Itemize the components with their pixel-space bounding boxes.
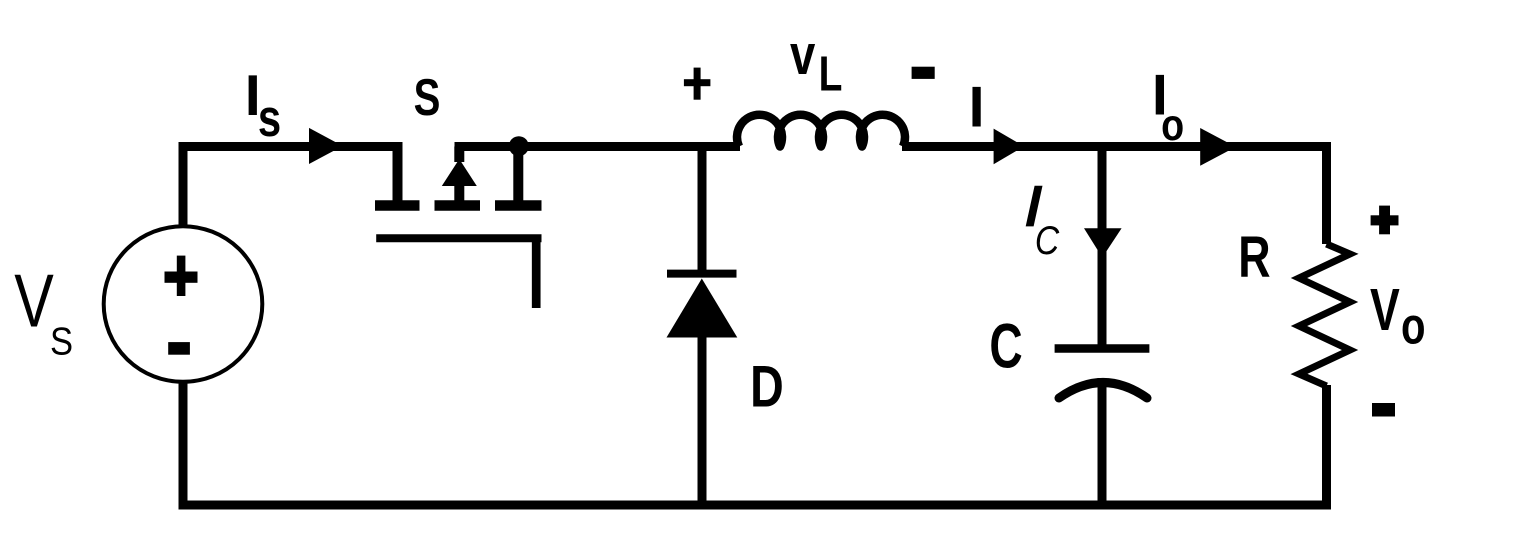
diode D triangle [667,279,738,338]
svg-text:C: C [989,312,1022,382]
transistor S (MOSFET switch) [375,142,542,308]
label Is [245,64,281,148]
mosfet body-diode triangle [442,159,477,186]
wire: source top lead, top-left wire, switch drain lead [183,147,398,227]
mosfet drain lead [393,142,403,201]
voltage source VS circle [104,226,263,382]
current arrow I [994,129,1024,165]
svg-text:V: V [14,258,54,342]
svg-text:C: C [1035,219,1060,263]
svg-text:o: o [1401,296,1426,354]
capacitor C top plate [1055,344,1150,353]
voltage source minus sign [168,342,190,355]
label vL [790,23,842,102]
svg-text:L: L [819,47,843,102]
svg-text:R: R [1238,225,1270,290]
svg-text:s: s [258,89,281,148]
plus label for Vo [1371,206,1399,235]
svg-text:S: S [414,68,441,126]
resistor R zigzag [1299,244,1350,386]
mosfet source lead [513,147,523,201]
inductor L coil [737,115,905,147]
mosfet body-diode stub [454,147,464,201]
current arrow Is [309,128,343,164]
label Io [1152,64,1184,150]
mosfet gate bar [376,234,541,242]
svg-text:o: o [1161,101,1184,150]
svg-text:V: V [1370,276,1400,343]
junction dot at switch source [509,136,529,156]
mosfet middle pad [435,200,481,211]
capacitor C curved bottom plate [1059,383,1147,399]
current arrow IC [1084,228,1122,257]
wire: capacitor bottom lead [1098,378,1107,505]
wire: top-right from inductor to load corner, load top lead [902,147,1327,245]
svg-text:I: I [969,75,985,139]
label VS [14,258,73,363]
voltage source plus sign [165,256,198,296]
minus label for Vo [1372,403,1395,417]
svg-text:v: v [790,23,816,87]
wire: top-middle from switch to inductor [455,142,741,151]
label IC italic I [1026,186,1043,227]
svg-text:D: D [750,355,784,420]
mosfet source pad [495,200,542,211]
label Vo [1370,276,1426,354]
minus label for vL [912,67,935,79]
wire: source bottom lead, bottom rail, load bottom lead [183,383,1327,505]
mosfet gate lead [532,238,541,308]
diode D cathode bar [667,270,737,278]
wire: diode bottom lead [698,335,707,505]
current arrow Io [1200,128,1236,166]
wire: capacitor top lead [1098,147,1107,346]
plus label for vL [684,68,711,100]
svg-text:S: S [50,320,73,363]
mosfet drain pad [375,200,420,211]
wire: diode top lead [698,147,707,276]
